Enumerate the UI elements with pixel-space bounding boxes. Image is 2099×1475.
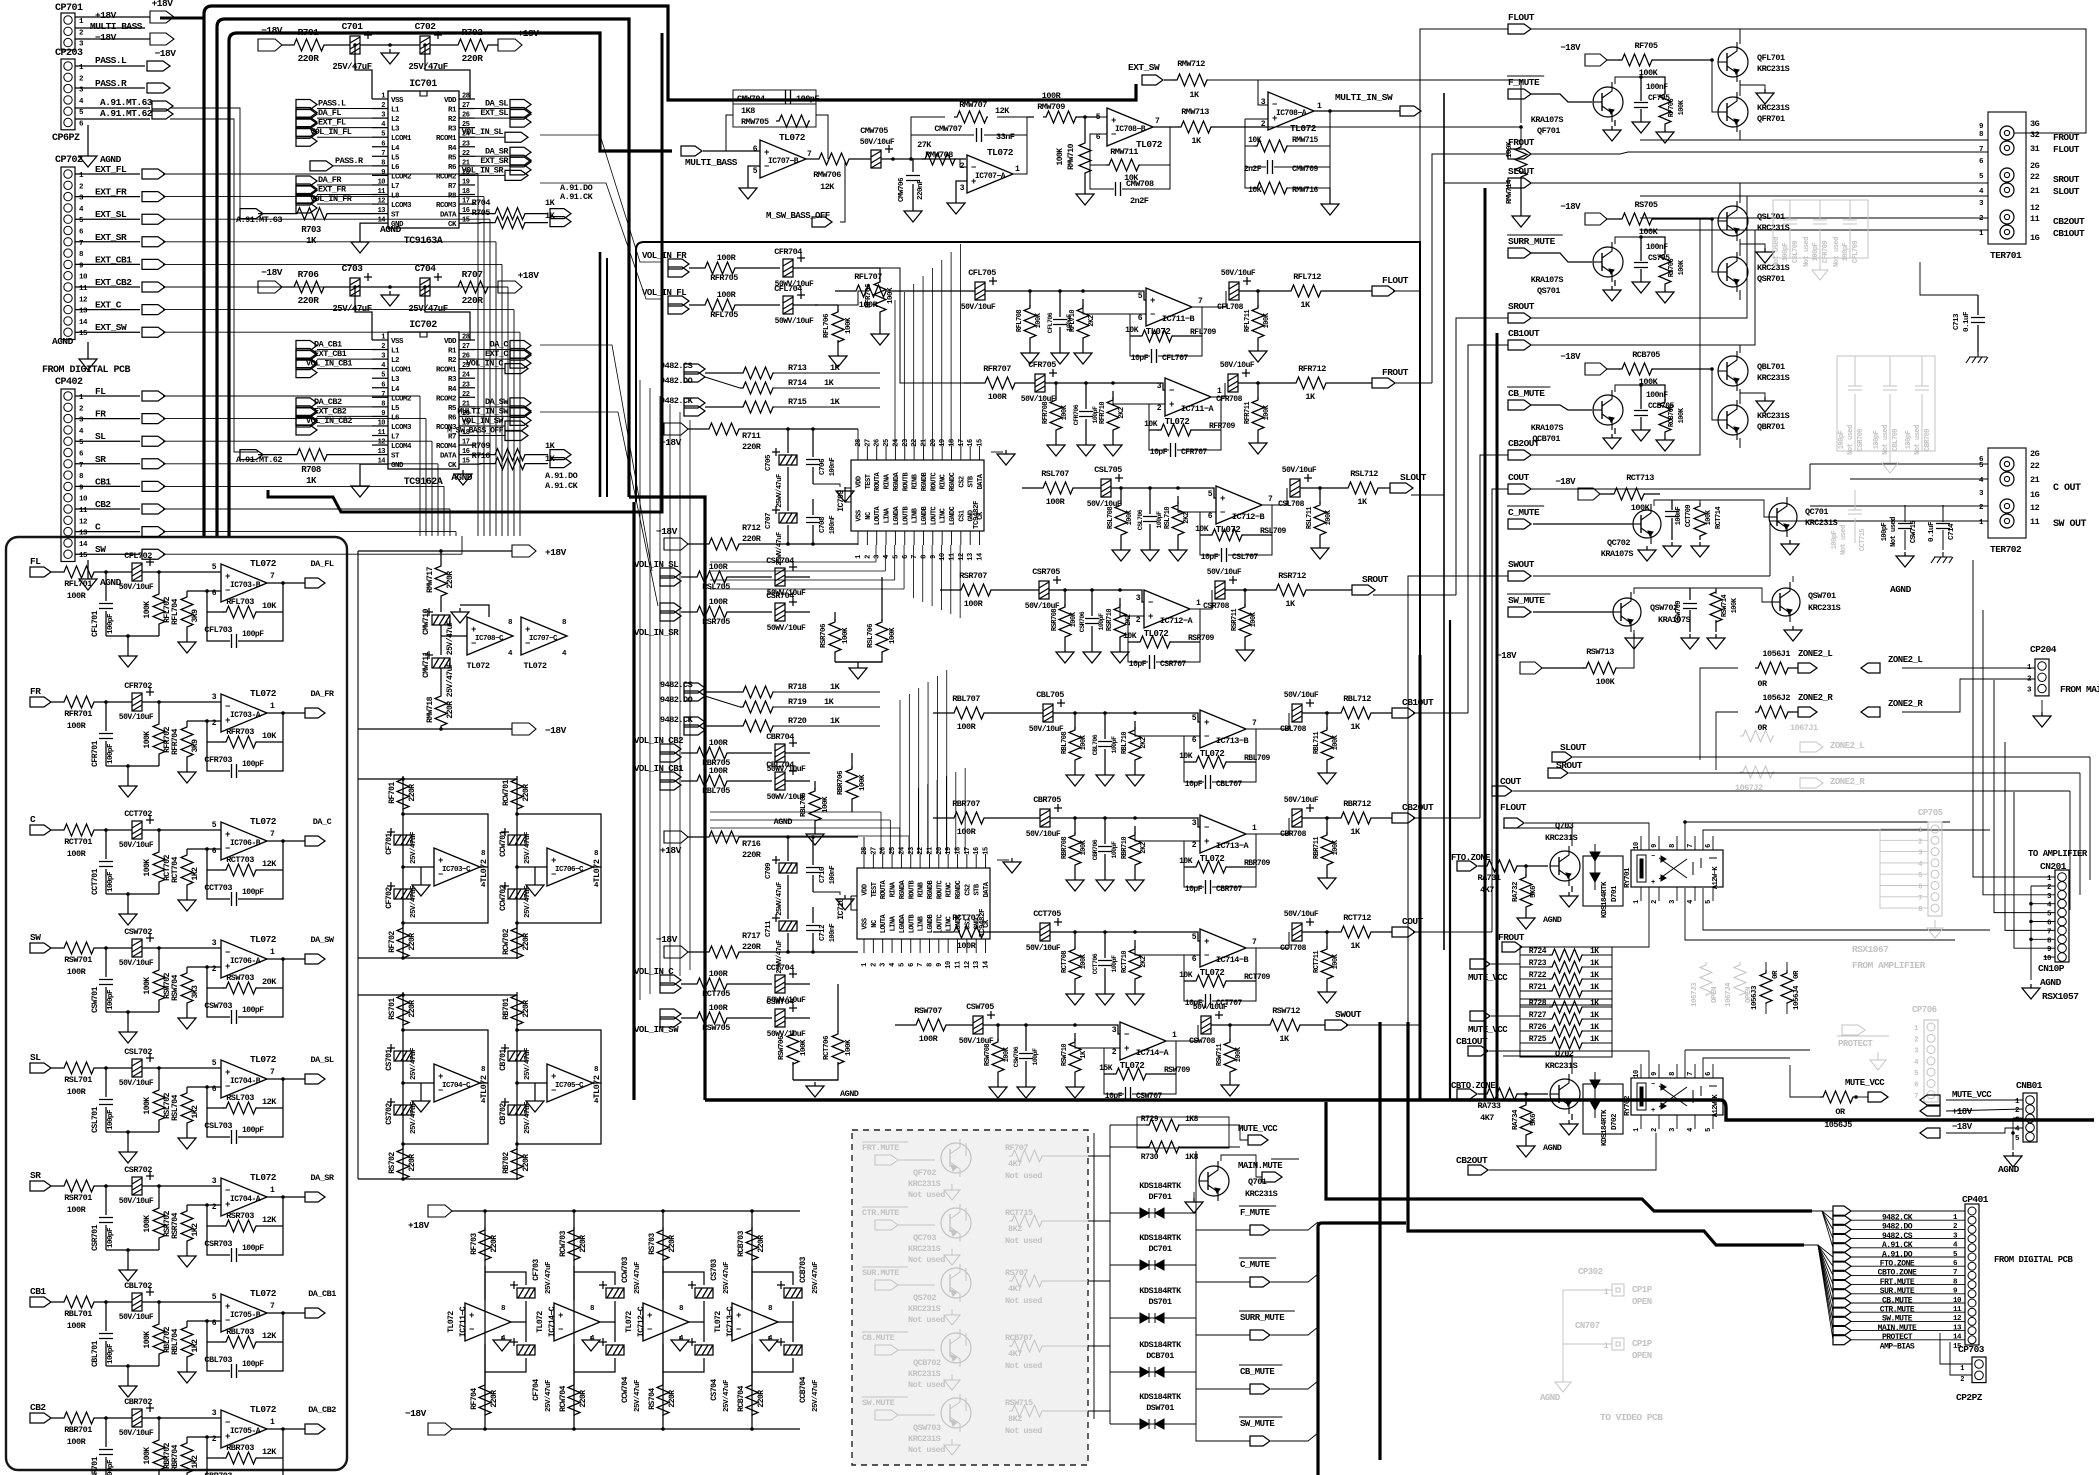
svg-text:L1: L1 (391, 107, 400, 115)
svg-text:STB: STB (974, 883, 982, 895)
svg-text:50V/10uF: 50V/10uF (1284, 910, 1319, 919)
svg-text:100R: 100R (67, 849, 87, 859)
svg-text:6: 6 (1192, 736, 1197, 745)
svg-text:RCT705: RCT705 (702, 989, 730, 999)
svg-text:DA_SW: DA_SW (310, 935, 334, 945)
resistor RCT704 (186, 849, 188, 852)
svg-text:3: 3 (212, 939, 217, 948)
svg-text:RSW704: RSW704 (171, 974, 180, 1001)
svg-text:11: 11 (955, 961, 963, 969)
svg-text:SW OUT: SW OUT (2053, 519, 2087, 530)
svg-text:50V/10uF: 50V/10uF (1284, 796, 1319, 805)
svg-text:CSR703: CSR703 (204, 1239, 232, 1249)
ground IC702 GND (360, 464, 372, 482)
svg-text:50V/10uF: 50V/10uF (1221, 269, 1256, 278)
svg-text:4: 4 (883, 555, 891, 559)
svg-text:6: 6 (1705, 844, 1713, 848)
svg-text:13: 13 (79, 308, 88, 316)
svg-text:100pF: 100pF (1111, 736, 1118, 754)
svg-text:RCT712: RCT712 (1343, 913, 1371, 923)
wire thick bottom bus (705, 1100, 2094, 1120)
resistor RMW707 (954, 111, 988, 123)
resistor RBR708 (1074, 818, 1076, 834)
wire dac vdd (863, 837, 865, 854)
svg-text:QCB701: QCB701 (1532, 434, 1560, 444)
svg-text:IC713−A: IC713−A (1216, 841, 1250, 851)
net tag EXT_C (510, 350, 531, 368)
svg-text:SL: SL (95, 431, 106, 442)
power tag -18V RS705 (1585, 213, 1607, 225)
svg-text:C: C (30, 814, 36, 825)
svg-text:CMW709: CMW709 (1292, 165, 1319, 174)
svg-text:SROUT: SROUT (1362, 574, 1389, 585)
net tag DA_SL (510, 100, 531, 118)
capacitor CCT704 (775, 970, 797, 993)
svg-text:13: 13 (1953, 1324, 1962, 1332)
resistor RBR711 (1326, 818, 1328, 834)
svg-text:VOL_IN_C: VOL_IN_C (466, 359, 503, 369)
svg-text:FLOUT: FLOUT (2053, 144, 2080, 155)
svg-text:−18V: −18V (1496, 651, 1517, 661)
svg-text:1K: 1K (1279, 1034, 1290, 1044)
svg-text:QC701: QC701 (1805, 507, 1828, 517)
svg-text:6: 6 (212, 589, 217, 598)
svg-text:9482.CS: 9482.CS (1882, 1232, 1913, 1241)
wire fb1 legs (726, 115, 760, 151)
svg-text:CSW715: CSW715 (1910, 521, 1918, 544)
svg-text:Not used: Not used (1005, 1296, 1042, 1306)
svg-text:C708: C708 (819, 516, 827, 533)
svg-text:11: 11 (378, 429, 386, 437)
resistor RSR703 (187, 1204, 221, 1206)
net tag PASS.L (147, 61, 170, 71)
resistor RMW714 (1520, 127, 1522, 144)
svg-text:DC701: DC701 (1148, 1244, 1171, 1254)
svg-text:220R: 220R (522, 933, 531, 951)
svg-text:LINB: LINB (918, 915, 926, 931)
ground (806, 830, 824, 845)
svg-text:FR: FR (95, 409, 106, 420)
svg-text:10: 10 (79, 274, 88, 282)
svg-text:RBR710: RBR710 (1121, 837, 1129, 860)
resistor RBL701 (51, 1301, 61, 1303)
svg-text:220R: 220R (757, 1235, 766, 1253)
svg-text:CFL704: CFL704 (774, 284, 802, 294)
svg-text:EXT_SW: EXT_SW (95, 322, 127, 333)
svg-text:100R: 100R (717, 290, 737, 300)
svg-text:GND: GND (968, 510, 976, 521)
svg-text:CP6PZ: CP6PZ (52, 133, 80, 144)
wire dac vdd (857, 429, 859, 446)
capacitor CB1 fb (207, 1342, 230, 1371)
svg-text:50V/10uF: 50V/10uF (119, 1197, 154, 1206)
svg-text:RCOM4: RCOM4 (436, 443, 457, 451)
resistor RMW705 (733, 104, 816, 127)
capacitor C711 (787, 875, 789, 919)
svg-text:1K2: 1K2 (191, 1455, 200, 1469)
svg-text:RFR707: RFR707 (983, 364, 1011, 374)
svg-text:11: 11 (2030, 214, 2040, 224)
svg-text:23: 23 (902, 439, 910, 447)
svg-text:CF705: CF705 (1648, 94, 1670, 103)
svg-text:TER701: TER701 (1990, 250, 2022, 261)
svg-text:CSL706: CSL706 (1137, 509, 1144, 530)
svg-text:QS701: QS701 (1537, 286, 1560, 296)
svg-text:17: 17 (958, 439, 966, 447)
svg-text:TL072: TL072 (1200, 854, 1225, 864)
svg-text:C710: C710 (819, 866, 827, 883)
svg-text:100pF: 100pF (242, 760, 264, 769)
resistor R724 (1520, 954, 1549, 956)
svg-text:4K7: 4K7 (1008, 1159, 1022, 1169)
op-amp IC704-B (221, 1060, 267, 1098)
svg-text:4: 4 (1687, 1128, 1695, 1132)
svg-text:CNB01: CNB01 (2016, 1080, 2043, 1091)
wire volin fr to row (818, 267, 880, 269)
svg-text:PASS.L: PASS.L (318, 99, 346, 109)
svg-text:CB2OUT: CB2OUT (1402, 802, 1434, 813)
ground buf (420, 867, 422, 881)
svg-text:100pF: 100pF (1156, 511, 1163, 529)
svg-text:1: 1 (1633, 1128, 1641, 1132)
svg-text:32: 32 (2030, 130, 2040, 140)
svg-text:−: − (1124, 1030, 1129, 1040)
svg-text:OPEN: OPEN (1711, 987, 1719, 1003)
svg-text:CB_MUTE: CB_MUTE (1508, 388, 1545, 399)
net tag CB.MUTE cp401 (1833, 1289, 1851, 1299)
svg-text:1056J4: 1056J4 (1793, 985, 1801, 1010)
svg-text:RF705: RF705 (1634, 41, 1657, 51)
svg-text:27: 27 (462, 102, 470, 110)
resistor R703 (258, 213, 294, 215)
transistor QSW701 (1772, 588, 1800, 616)
svg-text:7: 7 (270, 1068, 275, 1077)
power tag +18V dac (664, 831, 688, 843)
resistor RSR705 (694, 606, 728, 618)
svg-text:50WV/10uF: 50WV/10uF (767, 1030, 806, 1039)
svg-text:100K: 100K (800, 1039, 808, 1056)
svg-text:AGND: AGND (840, 1089, 859, 1099)
svg-text:SW_MUTE: SW_MUTE (1508, 595, 1545, 606)
svg-text:VDD: VDD (856, 476, 864, 487)
svg-text:LOUTC: LOUTC (936, 914, 944, 933)
resistor RSL712 (1345, 482, 1379, 494)
svg-text:CMW711: CMW711 (422, 651, 431, 678)
svg-text:FL: FL (95, 386, 106, 397)
svg-text:CB2OUT: CB2OUT (2053, 216, 2085, 227)
svg-text:100pF: 100pF (1032, 1048, 1039, 1066)
svg-text:+: + (438, 856, 443, 866)
svg-text:RGNDB: RGNDB (921, 471, 929, 491)
svg-text:25V/47uF: 25V/47uF (812, 1379, 820, 1412)
svg-text:CCT715: CCT715 (1859, 529, 1867, 552)
wire botcell (484, 1211, 486, 1429)
svg-text:RCB707: RCB707 (1005, 1333, 1033, 1343)
wire fb2 legs (911, 117, 945, 159)
svg-text:10: 10 (378, 178, 386, 186)
svg-text:SW_MUTE: SW_MUTE (1240, 1419, 1275, 1429)
capacitor CSR706 (1091, 590, 1093, 616)
svg-text:CCT701: CCT701 (91, 868, 100, 895)
capacitor SR fb (207, 1226, 230, 1255)
svg-text:L6: L6 (391, 164, 400, 172)
resistor R706 (282, 286, 291, 288)
capacitor CMW710 (440, 597, 442, 612)
svg-text:R701: R701 (298, 27, 320, 38)
svg-text:7: 7 (2047, 928, 2051, 936)
svg-text:1K: 1K (830, 363, 841, 373)
svg-text:CP701: CP701 (55, 3, 83, 14)
power tag -18V (150, 33, 174, 45)
svg-text:1: 1 (855, 555, 863, 559)
wire thick bus upper-left inner (229, 33, 672, 536)
resistor RSW711 (1229, 1025, 1231, 1041)
svg-text:6: 6 (908, 963, 916, 967)
diode D701 (1583, 856, 1623, 906)
svg-text:3: 3 (381, 353, 385, 361)
svg-text:50V/10uF: 50V/10uF (1220, 361, 1255, 370)
svg-text:MUTE_VCC: MUTE_VCC (1238, 1124, 1278, 1134)
svg-text:RCOM3: RCOM3 (436, 202, 457, 210)
svg-text:9482.DO: 9482.DO (660, 695, 693, 705)
net tag SL (142, 436, 165, 446)
svg-text:3: 3 (960, 184, 965, 193)
svg-text:7: 7 (270, 1302, 275, 1311)
capacitor CFL708 (1229, 277, 1251, 300)
svg-text:1: 1 (1604, 1288, 1609, 1297)
svg-text:Not used: Not used (1914, 425, 1922, 455)
svg-text:C_MUTE: C_MUTE (1240, 1260, 1271, 1270)
svg-text:3: 3 (1914, 1048, 1918, 1056)
svg-text:IC710: IC710 (837, 898, 846, 920)
svg-text:ROUTB: ROUTB (908, 879, 916, 899)
svg-text:RBR711: RBR711 (1313, 837, 1321, 860)
svg-text:F_MUTE: F_MUTE (1240, 1208, 1271, 1218)
IC IC709 TC9482F (851, 460, 984, 531)
svg-text:100K: 100K (822, 796, 830, 813)
svg-text:AGND: AGND (52, 336, 74, 347)
svg-text:100pF: 100pF (1092, 406, 1099, 424)
svg-text:KRC231S: KRC231S (1757, 103, 1790, 113)
svg-text:TL072: TL072 (250, 558, 277, 569)
wire left column border (6, 537, 347, 1470)
svg-text:L5: L5 (391, 154, 400, 162)
svg-text:10K: 10K (1248, 186, 1262, 195)
resistor RBL703 (187, 1320, 221, 1322)
svg-text:R712: R712 (742, 523, 761, 533)
svg-text:100K: 100K (1705, 509, 1713, 525)
svg-text:9: 9 (936, 963, 944, 967)
svg-text:IC708−C: IC708−C (475, 635, 504, 643)
svg-text:1: 1 (1196, 599, 1201, 608)
net tag MUTE_VCC cn801 (1920, 1095, 1940, 1105)
svg-text:22: 22 (462, 391, 470, 399)
resistor RBL708 (1074, 713, 1076, 729)
svg-text:10K: 10K (1179, 857, 1193, 866)
svg-text:DA_C: DA_C (313, 817, 332, 827)
svg-text:+: + (1204, 937, 1209, 947)
svg-text:2: 2 (870, 963, 878, 967)
svg-text:A.91.DO: A.91.DO (545, 471, 578, 481)
svg-text:100K: 100K (1332, 734, 1340, 750)
svg-text:100K: 100K (842, 627, 850, 644)
resistor RSW713 (1542, 667, 1584, 669)
svg-text:12: 12 (964, 961, 972, 969)
wire buf rails (358, 778, 517, 780)
svg-text:6: 6 (212, 1319, 217, 1328)
svg-text:25V/47uF: 25V/47uF (410, 1047, 418, 1080)
relay RY701 (1631, 850, 1723, 887)
svg-text:R2: R2 (448, 357, 457, 365)
svg-text:2K2: 2K2 (1140, 737, 1148, 748)
net tag FRT.MUTE cp401 (1833, 1270, 1851, 1280)
svg-text:5: 5 (212, 1293, 217, 1302)
resistor RBL711 (1326, 713, 1328, 729)
resistor 1056J3 (1765, 962, 1767, 972)
svg-text:CBL707: CBL707 (1216, 780, 1243, 789)
resistor RFR704 (186, 721, 188, 724)
svg-text:TL072: TL072 (625, 1311, 634, 1333)
net tag -18V cn801 (1920, 1128, 1940, 1138)
svg-text:11: 11 (1953, 1306, 1962, 1314)
resistor R712 (688, 543, 706, 545)
svg-text:C702: C702 (415, 21, 437, 32)
svg-text:MAIN.MUTE: MAIN.MUTE (1238, 1161, 1283, 1171)
wire row outputs to trunk (1393, 290, 1420, 292)
svg-text:7: 7 (270, 830, 275, 839)
svg-text:CMW708: CMW708 (1126, 179, 1154, 189)
svg-text:EXT_C: EXT_C (95, 300, 122, 311)
ground relay q (1571, 1114, 1573, 1120)
svg-text:FROM AMPLIFIER: FROM AMPLIFIER (1852, 960, 1926, 971)
svg-text:RCW701: RCW701 (502, 779, 511, 806)
svg-text:TL072: TL072 (714, 1311, 723, 1333)
svg-text:CB1OUT: CB1OUT (1508, 328, 1540, 339)
svg-text:1: 1 (1918, 827, 1922, 835)
svg-text:50V/10uF: 50V/10uF (119, 959, 154, 968)
svg-text:26: 26 (462, 112, 470, 120)
svg-text:CFR702: CFR702 (124, 681, 152, 691)
svg-text:R718: R718 (788, 682, 807, 692)
ground (381, 291, 399, 306)
svg-text:CBR709: CBR709 (1924, 429, 1932, 452)
svg-text:100pF: 100pF (1812, 242, 1820, 261)
wire mute trunk left2 (1093, 1133, 1095, 1419)
resistor RBR704 (186, 1437, 188, 1440)
svg-text:0R: 0R (1757, 679, 1768, 689)
resistor RMW708 (922, 153, 956, 165)
svg-text:+18V: +18V (518, 270, 540, 281)
wire ter701 links (1640, 139, 1988, 141)
svg-text:LINC: LINC (940, 508, 948, 523)
svg-text:FRT.MUTE: FRT.MUTE (862, 1143, 899, 1153)
svg-text:6: 6 (1914, 1082, 1918, 1090)
svg-text:RFR711: RFR711 (1244, 402, 1252, 425)
svg-text:5: 5 (212, 1059, 217, 1068)
svg-text:2: 2 (1112, 1048, 1117, 1057)
ground (178, 1368, 196, 1383)
svg-text:EXT_CB2: EXT_CB2 (95, 277, 132, 288)
svg-text:FROM DIGITAL PCB: FROM DIGITAL PCB (1994, 1255, 2074, 1265)
svg-text:CN10P: CN10P (2038, 963, 2065, 974)
svg-text:RSR708: RSR708 (1051, 609, 1059, 632)
svg-text:RA734: RA734 (1512, 1109, 1520, 1130)
svg-text:CSW705: CSW705 (966, 1002, 994, 1012)
resistor R711 (688, 428, 706, 430)
svg-text:+: + (551, 856, 556, 866)
svg-text:25: 25 (883, 439, 891, 447)
wire thick bus stub (1378, 1022, 1381, 1160)
svg-text:CB1OUT: CB1OUT (2053, 228, 2085, 239)
svg-text:SR: SR (30, 1170, 41, 1181)
svg-text:TL072: TL072 (1165, 417, 1190, 427)
svg-text:−18V: −18V (545, 725, 567, 736)
svg-text:Not used: Not used (908, 1315, 945, 1325)
resistor 1056J4 (1786, 962, 1788, 972)
wire thick right trunk 2 (1496, 333, 1499, 1100)
wire cp402 feed bundle (163, 395, 420, 397)
resistor R714 (740, 382, 774, 394)
svg-text:100R: 100R (67, 591, 87, 601)
svg-text:22: 22 (2030, 461, 2040, 471)
wire thick bus far drop (1378, 1160, 1381, 1460)
resistor RCT702 (158, 830, 160, 849)
capacitor CFR706 (1085, 383, 1087, 409)
svg-text:100R: 100R (964, 599, 984, 609)
svg-text:12: 12 (2030, 503, 2040, 513)
ground dac right (997, 859, 1009, 861)
svg-text:220R: 220R (490, 1235, 499, 1253)
op-amp IC707-C (521, 617, 567, 655)
ground buf (534, 1083, 536, 1097)
svg-text:R724: R724 (1529, 947, 1547, 956)
svg-text:EXT_SL: EXT_SL (480, 108, 508, 118)
svg-text:9482.CS: 9482.CS (660, 680, 693, 690)
capacitor CF705 (1615, 77, 1641, 84)
wire flout top border (1531, 29, 2086, 133)
svg-text:C706: C706 (819, 458, 827, 475)
svg-text:CCT705: CCT705 (1033, 909, 1061, 919)
svg-text:8: 8 (926, 963, 934, 967)
svg-text:1K: 1K (1590, 947, 1599, 956)
svg-text:4: 4 (1918, 861, 1922, 869)
svg-text:2G: 2G (2030, 161, 2040, 171)
svg-text:3: 3 (1669, 900, 1677, 904)
net tag DA_FR (296, 176, 317, 194)
wire C702 to VDD (425, 45, 470, 99)
op-amp IC712−B (1216, 486, 1262, 524)
resistor RFL710 (1082, 299, 1084, 307)
svg-text:KRC231S: KRC231S (1757, 411, 1790, 421)
svg-text:1K: 1K (1590, 971, 1599, 980)
net tag EXT_CB2 (296, 407, 317, 425)
svg-text:100K: 100K (143, 601, 152, 619)
svg-text:220R: 220R (668, 1390, 677, 1408)
svg-text:SLOUT: SLOUT (1508, 166, 1535, 177)
svg-text:8: 8 (381, 400, 385, 408)
svg-text:100K: 100K (1235, 1046, 1243, 1062)
svg-text:R2: R2 (448, 116, 457, 124)
resistor RSW714 (1690, 588, 1716, 594)
svg-text:RBL709: RBL709 (1244, 754, 1271, 763)
resistor RFL709 feedback (1130, 314, 1144, 336)
svg-text:50V/10uF: 50V/10uF (1193, 1003, 1228, 1012)
svg-text:RMW717: RMW717 (426, 566, 435, 593)
svg-text:QSW703: QSW703 (913, 1423, 941, 1433)
svg-text:220R: 220R (446, 701, 455, 719)
svg-text:IC711−B: IC711−B (1162, 314, 1195, 324)
svg-text:RBL701: RBL701 (64, 1309, 92, 1319)
